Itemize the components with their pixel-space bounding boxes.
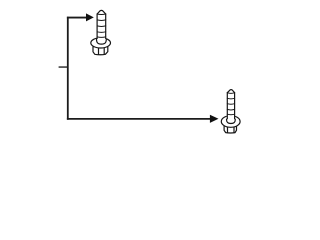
bolt B2 thread line 3 (227, 103, 234, 106)
bolt B2 hex facet line right (233, 127, 235, 133)
bolt B1 thread line 3 (97, 25, 106, 28)
bolt B1 (upper flange bolt) (91, 10, 111, 54)
arrowhead pointing at bolt 2 (210, 115, 219, 123)
bolt B1 thread line 1 (97, 13, 106, 16)
wire: vertical leader line (67, 17, 69, 120)
bolt B1 chamfered tip (97, 10, 106, 14)
wire: bottom horizontal leader line to bolt 2 (67, 118, 211, 120)
bolt B2 thread line 5 (227, 113, 234, 116)
bolt B1 thread line 4 (97, 31, 106, 34)
bolt B2 chamfered tip (227, 90, 234, 93)
bolt B2 hex head silhouette (224, 125, 236, 133)
bolt B2 thread line 4 (227, 108, 234, 111)
bolt B1 flange ellipse (91, 38, 111, 48)
bolt B1 hex facet line left (98, 48, 100, 55)
bolt B1 thread line 5 (97, 36, 106, 39)
bolt B1 neck collar arc (97, 39, 107, 44)
arrowhead pointing at bolt 1 (86, 13, 94, 21)
wire: top horizontal leader line to bolt 1 (67, 17, 87, 19)
wire: leader tick stub left of vertical line (59, 66, 68, 68)
bolt B2 flange ellipse (221, 116, 240, 128)
bolt B1 shaft body (97, 10, 107, 40)
bolt B2 shaft body (227, 89, 235, 119)
bolt B2 neck collar arc (227, 119, 236, 123)
bolt B1 hex head silhouette (93, 46, 108, 55)
bolt B2 thread line 1 (227, 92, 234, 95)
bolt B2 (lower flange bolt) (221, 89, 240, 133)
bolt B1 hex facet line right (103, 48, 105, 55)
bolt B2 thread line 2 (227, 97, 234, 100)
bolt B2 hex facet line left (227, 127, 229, 133)
bolt B1 thread line 2 (97, 19, 106, 22)
